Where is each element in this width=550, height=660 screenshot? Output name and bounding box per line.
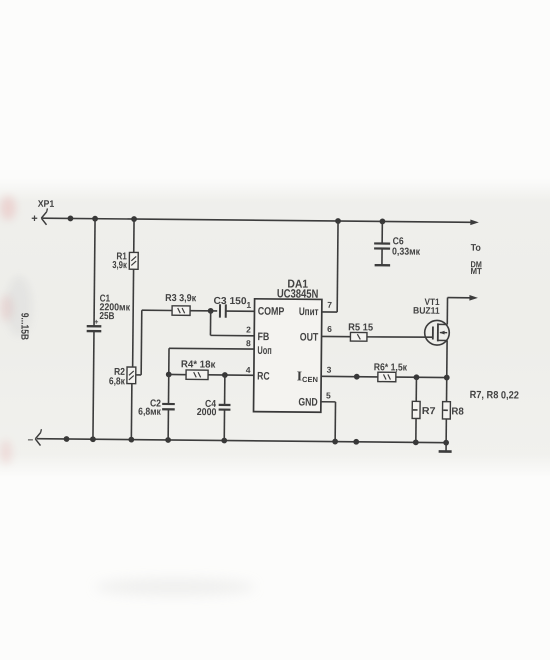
svg-text:R6* 1,5к: R6* 1,5к — [374, 362, 408, 373]
capacitor C1 electrolytic — [87, 325, 102, 328]
svg-text:6: 6 — [327, 324, 332, 334]
wire pin6 to R5 — [322, 335, 351, 337]
svg-text:R7: R7 — [422, 406, 436, 417]
wire divider tap stub — [136, 374, 142, 376]
svg-text:Uоп: Uоп — [257, 345, 271, 357]
svg-text:FB: FB — [257, 331, 269, 343]
resistor R3 — [172, 306, 190, 316]
svg-text:R7, R8 0,22: R7, R8 0,22 — [470, 389, 519, 401]
wire C4 lower — [223, 410, 225, 441]
wire bottom common rail — [37, 439, 446, 443]
wire C1 branch lower — [93, 331, 94, 439]
ground symbol — [439, 443, 452, 452]
node top rail dot C6 — [380, 218, 386, 224]
svg-text:+: + — [31, 213, 38, 225]
wire C6 lower stub — [381, 249, 383, 265]
svg-text:COMP: COMP — [258, 306, 285, 318]
wire R4 to junction — [169, 373, 186, 375]
svg-text:6,8мк: 6,8мк — [138, 407, 162, 418]
svg-text:1: 1 — [246, 300, 251, 310]
svg-text:9...15В: 9...15В — [18, 313, 30, 341]
svg-text:8: 8 — [246, 338, 251, 348]
wire pin7 horizontal — [322, 311, 337, 313]
svg-text:BUZ11: BUZ11 — [413, 306, 440, 316]
node bottom rail dot A — [64, 436, 70, 442]
node bottom rail dot R8 — [443, 440, 449, 446]
wire R6 to source node — [396, 376, 447, 378]
node C4 junction dot — [222, 372, 228, 378]
svg-text:To: To — [471, 243, 481, 254]
arrow top rail output — [470, 219, 479, 225]
svg-text:3: 3 — [327, 365, 332, 375]
wire R7 lower — [415, 418, 417, 442]
svg-text:5: 5 — [326, 390, 331, 400]
svg-text:R8: R8 — [451, 406, 464, 417]
node bottom rail dot GND pin5 — [332, 439, 338, 445]
wire C2 branch — [167, 374, 169, 403]
wire R8 lower — [445, 419, 447, 443]
node top rail dot C1 — [92, 216, 98, 222]
connector XP1 pin - terminal — [35, 429, 41, 445]
resistor R5 — [350, 332, 367, 341]
wire R5 to gate — [367, 336, 433, 339]
node C5 junction dot — [354, 374, 360, 380]
svg-text:7: 7 — [327, 300, 332, 310]
svg-text:R3 3,9к: R3 3,9к — [165, 293, 197, 304]
wire C3 to pin1 — [226, 310, 255, 312]
svg-text:XP1: XP1 — [38, 199, 55, 210]
svg-text:C3 150: C3 150 — [214, 296, 248, 307]
wire FB vertical to node — [209, 311, 211, 335]
wire top supply rail — [43, 218, 471, 222]
svg-text:3,9к: 3,9к — [112, 260, 127, 271]
resistor R4 — [186, 370, 208, 380]
svg-text:2000: 2000 — [197, 407, 217, 418]
wire R3 branch horizontal — [142, 309, 172, 311]
node R7 junction dot — [414, 374, 420, 380]
wire drain vertical — [446, 298, 448, 325]
node top rail dot R1 — [131, 216, 137, 222]
wire drain output horizontal — [448, 297, 470, 299]
wire C4 branch — [224, 375, 226, 405]
wire pin8 vertical — [168, 348, 170, 374]
transistor VT1 BUZ11 MOSFET — [425, 320, 450, 345]
node bottom rail dot C2 — [165, 437, 171, 443]
svg-text:Uпит: Uпит — [299, 306, 319, 318]
wire Uop pin8 — [169, 347, 254, 350]
node source junction dot — [444, 375, 450, 381]
wire C1 branch upper — [94, 219, 95, 326]
svg-text:+: + — [94, 317, 99, 326]
node bottom rail dot C1 — [90, 436, 96, 442]
svg-text:4: 4 — [246, 365, 251, 375]
svg-text:OUT: OUT — [300, 332, 319, 344]
wire C2 lower — [167, 409, 169, 440]
wire pin5 GND horizontal — [321, 401, 336, 403]
svg-text:6,8к: 6,8к — [109, 376, 126, 387]
arrow drain output — [469, 295, 478, 301]
svg-text:–: – — [28, 435, 34, 446]
wire R3 branch vertical — [140, 310, 143, 375]
capacitor C3 — [219, 304, 221, 317]
wire source vertical — [446, 340, 448, 377]
resistor R7 — [412, 401, 420, 418]
capacitor C4 — [219, 404, 231, 406]
capacitor C2 — [162, 403, 175, 405]
wire RC pin4 — [208, 374, 254, 376]
resistor R2 — [127, 367, 136, 384]
svg-text:UC3845N: UC3845N — [277, 286, 319, 300]
svg-text:RC: RC — [257, 371, 270, 383]
wire FB pin2 — [210, 334, 254, 336]
svg-text:MT: MT — [470, 266, 482, 276]
wire R7 branch — [415, 377, 417, 401]
node FB junction dot — [208, 308, 214, 314]
capacitor C6 — [374, 242, 390, 244]
op-amp controller U1 UC3845N body — [254, 299, 322, 412]
wire R3 to node — [190, 310, 217, 312]
svg-text:25В: 25В — [99, 311, 114, 322]
resistor R6 — [378, 372, 396, 382]
svg-text:R5 15: R5 15 — [348, 322, 374, 333]
node bottom rail dot C5 — [353, 439, 359, 445]
resistor R1 — [129, 252, 138, 269]
node top rail dot A — [68, 216, 74, 222]
wire R2 below to rail — [130, 384, 133, 440]
node RC-C2 junction dot — [166, 372, 172, 378]
svg-text:GND: GND — [298, 397, 317, 409]
connector XP1 pin + terminal — [41, 208, 47, 224]
capacitor C6 branch wire — [381, 221, 383, 243]
node bottom rail dot R2 — [128, 437, 134, 443]
resistor R8 — [442, 402, 450, 419]
node top rail dot pin7 — [335, 218, 341, 224]
svg-text:2: 2 — [246, 325, 251, 335]
wire pin3 to node — [321, 375, 378, 378]
node bottom rail dot R7 — [413, 439, 419, 445]
wire R1 to R2 — [132, 269, 135, 367]
wire pin5 vertical to rail — [334, 402, 336, 442]
svg-text:R4* 18к: R4* 18к — [181, 359, 217, 370]
node bottom rail dot C4 — [221, 438, 227, 444]
C6 end bar — [375, 264, 390, 267]
wire R8 branch — [446, 378, 448, 402]
wire R1 branch upper — [133, 219, 135, 252]
wire pin7 vertical to rail — [336, 221, 339, 312]
svg-text:0,33мк: 0,33мк — [392, 247, 421, 258]
